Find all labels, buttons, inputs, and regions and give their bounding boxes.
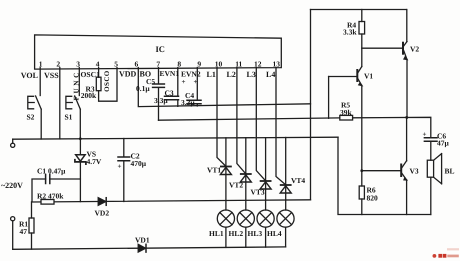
svg-text:L1: L1 [207,70,216,79]
svg-text:4.7V: 4.7V [87,157,102,166]
svg-text:VT4: VT4 [291,176,305,185]
svg-text:11: 11 [235,60,242,69]
svg-text:S1: S1 [65,113,73,122]
svg-text:HL1: HL1 [209,229,224,238]
svg-text:V1: V1 [364,72,373,81]
svg-text:820: 820 [367,194,379,203]
svg-text:V2: V2 [410,45,419,54]
svg-text:+: + [194,78,198,86]
svg-text:0.1μ: 0.1μ [136,84,150,93]
svg-text:200k: 200k [81,91,97,100]
svg-text:BL: BL [445,167,455,176]
svg-text:HL2: HL2 [229,229,244,238]
svg-text:+: + [182,78,186,86]
svg-text:HL3: HL3 [248,229,263,238]
svg-text:VD2: VD2 [95,209,110,218]
svg-text:+: + [423,131,427,139]
svg-text:VT3: VT3 [251,188,265,197]
svg-text:R2 470k: R2 470k [37,191,64,200]
svg-text:2: 2 [56,60,60,69]
svg-text:9: 9 [197,60,201,69]
svg-text:~220V: ~220V [1,181,23,190]
svg-text:L3: L3 [247,70,256,79]
svg-text:L2: L2 [227,70,236,79]
svg-text:7: 7 [156,60,160,69]
svg-text:FUNC: FUNC [73,70,81,100]
svg-text:HL4: HL4 [267,229,282,238]
svg-text:10: 10 [215,60,223,69]
svg-text:470μ: 470μ [131,159,147,168]
svg-text:47μ: 47μ [437,139,450,148]
svg-text:39k: 39k [340,108,353,117]
svg-text:VD1: VD1 [135,236,150,245]
svg-text:5: 5 [114,60,118,69]
svg-text:EVN1: EVN1 [160,69,180,78]
svg-text:1: 1 [39,60,43,69]
svg-text:8: 8 [177,60,181,69]
svg-text:3: 3 [76,60,80,69]
svg-text:12: 12 [254,60,262,69]
svg-text:C1 0.47μ: C1 0.47μ [37,167,66,176]
svg-text:13: 13 [273,60,281,69]
svg-text:+: + [118,163,122,171]
svg-text:47: 47 [20,227,28,236]
svg-text:VDD: VDD [119,70,137,79]
svg-text:IC: IC [156,44,165,54]
svg-text:OSC1: OSC1 [81,70,101,79]
svg-text:VT1: VT1 [207,166,221,175]
svg-text:3.3μ: 3.3μ [181,98,195,107]
svg-text:S2: S2 [27,113,35,122]
svg-text:VOL: VOL [21,71,38,80]
svg-text:VSS: VSS [44,71,59,80]
svg-text:L4: L4 [266,70,275,79]
svg-text:3.3k: 3.3k [343,28,357,37]
svg-text:OSCO: OSCO [103,70,111,92]
svg-text:3.3μ: 3.3μ [154,96,168,105]
svg-text:V3: V3 [410,167,419,176]
svg-text:6: 6 [135,60,139,69]
svg-text:4: 4 [96,60,100,69]
svg-text:VT2: VT2 [229,181,243,190]
